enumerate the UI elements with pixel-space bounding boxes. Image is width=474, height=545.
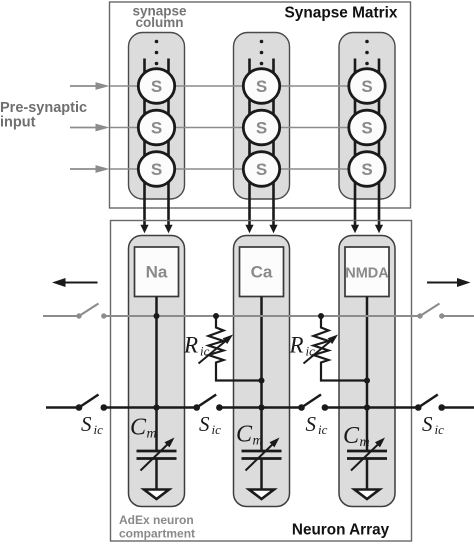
ellipsis dots column 1 — [155, 40, 159, 66]
conductance box NMDA — [345, 247, 389, 297]
synapse column 2 body — [234, 33, 290, 200]
switch gray left (open) — [76, 304, 106, 319]
node Na on gray line — [154, 313, 160, 319]
svg-text:S: S — [151, 119, 162, 138]
wire column 2 vertical right to neuron arrow — [269, 59, 277, 234]
svg-text:S: S — [81, 412, 92, 436]
ground Ca — [249, 490, 274, 500]
wire S_ic bus segment 46-79 — [46, 406, 79, 409]
ellipsis dots column 3 — [365, 40, 369, 66]
ground NMDA — [355, 490, 380, 500]
svg-text:input: input — [0, 115, 36, 131]
conductance box Ca — [240, 247, 284, 297]
capacitor C_m NMDA (variable) — [347, 435, 388, 490]
synapse S (column 2, row 1) — [243, 69, 279, 104]
synapse S (column 1, row 1) — [138, 69, 174, 104]
resistor R_ic 2 (variable) — [304, 316, 368, 381]
synapse S (column 1, row 2) — [138, 110, 174, 145]
neuron array outer box — [111, 221, 412, 542]
wire S_ic bus segment 219.4-301.5 — [219, 406, 301, 409]
synapse S (column 2, row 2) — [243, 110, 279, 145]
svg-text:S: S — [256, 77, 267, 96]
conductance box Na — [135, 247, 179, 297]
svg-text:ic: ic — [318, 422, 328, 437]
wire column 3 vertical left to neuron arrow — [351, 59, 359, 234]
label R_ic 1 — [183, 333, 210, 359]
svg-text:ic: ic — [94, 422, 104, 437]
svg-text:Neuron Array: Neuron Array — [292, 522, 390, 539]
svg-text:m: m — [360, 435, 370, 450]
switch S_ic 2 (open) — [193, 395, 222, 411]
node R_ic 1 tap on gray line — [213, 313, 219, 319]
svg-text:m: m — [253, 434, 263, 449]
svg-text:NMDA: NMDA — [345, 266, 389, 282]
synapse matrix outer box — [110, 2, 411, 208]
label C_m Ca — [236, 422, 263, 449]
synapse S (column 3, row 2) — [349, 110, 385, 145]
synapse column 1 body — [129, 33, 185, 200]
synapse S (column 2, row 3) — [243, 152, 279, 187]
svg-text:C: C — [343, 423, 360, 449]
wire presynaptic row 3 — [110, 168, 386, 170]
node NMDA on S_ic bus — [364, 404, 370, 410]
wire inter-compartment gray line right segment — [442, 315, 474, 317]
switch gray right (open) — [417, 304, 444, 319]
wire column 1 vertical right to neuron arrow — [164, 59, 172, 234]
wire presynaptic row 2 — [110, 127, 386, 129]
neuron compartment Na body — [129, 236, 185, 507]
node R_ic 2 to compartment — [364, 378, 370, 384]
synapse S (column 3, row 3) — [349, 152, 385, 187]
wire compartment Na center — [155, 297, 158, 451]
svg-text:S: S — [361, 160, 372, 179]
presynaptic input arrow row 3 — [70, 165, 110, 173]
node R_ic 1 to compartment — [259, 378, 265, 384]
svg-text:S: S — [361, 77, 372, 96]
label S_ic 2 — [199, 412, 221, 437]
neuron compartment Ca body — [234, 236, 290, 507]
svg-text:Na: Na — [146, 263, 168, 282]
wire column 3 vertical right to neuron arrow — [375, 59, 383, 234]
svg-text:AdEx neuron: AdEx neuron — [119, 513, 194, 527]
label S_ic 4 — [422, 412, 444, 437]
svg-text:compartment: compartment — [119, 527, 195, 541]
wire inter-compartment gray line middle segment — [104, 315, 420, 317]
label S_ic 3 — [306, 412, 328, 437]
svg-text:R: R — [183, 333, 198, 358]
svg-text:S: S — [256, 160, 267, 179]
svg-text:S: S — [199, 412, 210, 436]
wire compartment NMDA center — [366, 297, 369, 451]
switch S_ic 3 (open) — [298, 395, 328, 411]
wire presynaptic row 1 — [110, 85, 386, 87]
svg-text:S: S — [361, 119, 372, 138]
svg-text:column: column — [135, 15, 183, 30]
svg-text:R: R — [289, 333, 304, 358]
svg-text:ic: ic — [200, 344, 210, 359]
svg-text:C: C — [130, 415, 147, 441]
wire S_ic bus segment 441.7-474 — [442, 406, 474, 409]
arrow to next neuron (right) — [427, 278, 471, 287]
node Na on S_ic bus — [153, 404, 159, 410]
switch S_ic 4 (open) — [415, 395, 445, 411]
switch S_ic 1 (open) — [76, 395, 107, 411]
svg-text:S: S — [151, 77, 162, 96]
capacitor C_m Ca (variable) — [242, 435, 283, 490]
arrow to previous neuron (left) — [52, 278, 98, 287]
wire S_ic bus segment 324.9-418.3 — [325, 406, 418, 409]
svg-text:ic: ic — [212, 422, 222, 437]
label C_m Na — [130, 415, 157, 442]
resistor R_ic 1 (variable) — [199, 316, 262, 381]
wire S_ic bus segment 103.8-196.7 — [104, 406, 197, 409]
wire inter-compartment gray line left segment — [43, 315, 79, 317]
label R_ic 2 — [289, 333, 316, 359]
node R_ic 2 tap on gray line — [318, 313, 324, 319]
svg-text:S: S — [422, 412, 433, 436]
presynaptic input arrow row 2 — [70, 124, 110, 132]
ellipsis dots column 2 — [260, 40, 264, 66]
neuron compartment NMDA body — [339, 236, 395, 507]
svg-text:m: m — [147, 427, 157, 442]
svg-text:S: S — [306, 412, 317, 436]
svg-text:C: C — [236, 422, 253, 448]
label S_ic 1 — [81, 412, 103, 437]
label C_m NMDA — [343, 423, 370, 450]
svg-text:ic: ic — [435, 422, 445, 437]
svg-text:Synapse Matrix: Synapse Matrix — [285, 5, 398, 22]
wire compartment Ca center — [260, 297, 263, 451]
synapse column 3 body — [339, 33, 395, 200]
svg-text:ic: ic — [306, 344, 316, 359]
wire column 1 vertical left to neuron arrow — [140, 59, 148, 234]
svg-text:Ca: Ca — [251, 263, 273, 282]
ground Na — [144, 490, 169, 500]
presynaptic input arrow row 1 — [70, 82, 110, 90]
capacitor C_m Na (variable) — [137, 435, 178, 490]
svg-text:S: S — [256, 119, 267, 138]
synapse S (column 1, row 3) — [138, 152, 174, 187]
node Ca on S_ic bus — [258, 404, 264, 410]
synapse S (column 3, row 1) — [349, 69, 385, 104]
wire column 2 vertical left to neuron arrow — [245, 59, 253, 234]
svg-text:S: S — [151, 160, 162, 179]
